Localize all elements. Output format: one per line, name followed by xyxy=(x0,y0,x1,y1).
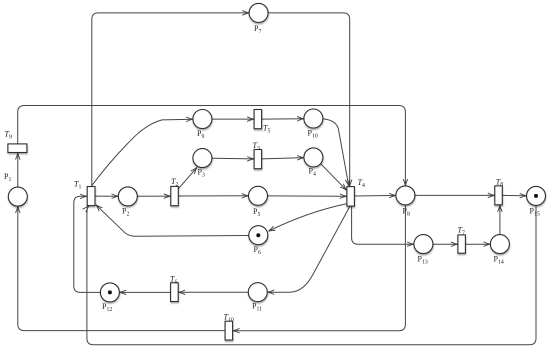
place P12 xyxy=(100,283,119,302)
place P13 xyxy=(414,235,433,254)
svg-text:P12: P12 xyxy=(102,302,112,313)
wire P14 to T8 (up) xyxy=(499,205,501,235)
wire T4 to P11 (long diagonal then flat) xyxy=(267,206,350,292)
svg-text:T4: T4 xyxy=(358,178,365,189)
place P10 xyxy=(304,109,323,128)
token in P15 xyxy=(534,194,538,198)
place P14 xyxy=(490,235,509,254)
wire P12 to T1 (left, up) xyxy=(74,196,101,292)
transition T1 xyxy=(87,187,95,206)
wire P11 to T6 xyxy=(178,291,248,293)
wire T10 to P1 (left along bottom, up) xyxy=(18,206,225,330)
wire T7 to P14 xyxy=(466,243,491,245)
transition T2 xyxy=(171,186,179,205)
wire P1 to T9 xyxy=(17,153,19,187)
wire P2 to T2 xyxy=(137,195,170,197)
place P8 xyxy=(396,186,415,205)
svg-text:P6: P6 xyxy=(254,245,261,256)
wire P4 to T4 (diagonal) xyxy=(321,164,347,191)
svg-text:T5: T5 xyxy=(263,124,270,135)
wire T8 to P15 xyxy=(502,194,526,196)
svg-text:P10: P10 xyxy=(308,129,318,140)
place P7 xyxy=(249,3,268,22)
svg-text:P3: P3 xyxy=(198,168,205,179)
svg-text:P14: P14 xyxy=(494,255,504,266)
wire T4 to P13 (down then right) xyxy=(352,206,414,244)
place P4 xyxy=(304,148,323,167)
transition T4 xyxy=(347,187,355,207)
place P1 xyxy=(8,187,27,206)
transition T7 xyxy=(458,235,466,253)
wire P10 to T4 (curve then steep diagonal) xyxy=(323,119,349,186)
place P5 xyxy=(249,186,268,205)
wire T1 to P2 xyxy=(95,195,119,197)
wire P6 to T1 (left then diagonal up) xyxy=(96,205,249,237)
wire P15 to T1 (down, across bottom, up) xyxy=(87,206,536,345)
transition T8 xyxy=(495,186,503,205)
wire P13 to T7 xyxy=(433,243,458,245)
token in P12 xyxy=(108,290,112,294)
wire T5 to P10 xyxy=(262,118,304,120)
wire T1 to P7 (up left side, across top) xyxy=(92,13,249,187)
place P3 xyxy=(193,149,212,168)
transition T5 xyxy=(254,110,262,129)
svg-text:P1: P1 xyxy=(4,172,11,183)
wire T4 to P6 (diagonal) xyxy=(268,204,346,231)
wire P5 to T4 xyxy=(268,195,347,197)
wire P3 to T3 xyxy=(212,157,254,160)
wire P8 to T10 (down, left) xyxy=(233,205,406,331)
place P6 xyxy=(249,226,268,245)
svg-text:P15: P15 xyxy=(530,207,540,218)
wire T9 to P8 (up, across, down) xyxy=(18,106,406,186)
svg-text:P2: P2 xyxy=(122,207,129,218)
svg-text:T1: T1 xyxy=(74,180,81,191)
wire P7 to T4 (across top, down right) xyxy=(268,13,350,186)
svg-text:P11: P11 xyxy=(252,302,262,313)
svg-text:P9: P9 xyxy=(197,129,204,140)
wire T2 to P5 xyxy=(178,195,248,197)
place P15 xyxy=(527,186,546,205)
svg-text:P4: P4 xyxy=(309,167,316,178)
svg-text:T9: T9 xyxy=(5,130,12,141)
wire T6 to P12 xyxy=(120,291,171,293)
wire T4 to P8 xyxy=(355,195,396,198)
svg-text:P13: P13 xyxy=(418,255,428,266)
wire T1 to P9 (diagonal then flat) xyxy=(91,119,193,187)
place P11 xyxy=(248,283,267,302)
transition T10 xyxy=(225,321,233,340)
place P2 xyxy=(118,187,137,206)
wire T3 to P4 xyxy=(262,158,304,159)
transition T9 xyxy=(8,144,27,153)
place P9 xyxy=(193,110,212,129)
wire P9 to T5 xyxy=(212,118,254,120)
token in P6 xyxy=(256,233,260,237)
svg-text:P8: P8 xyxy=(403,207,410,218)
svg-text:P5: P5 xyxy=(253,207,260,218)
wire T2 to P3 (diagonal) xyxy=(178,167,197,188)
transition T6 xyxy=(171,283,179,302)
svg-text:P7: P7 xyxy=(254,24,261,35)
wire P8 to T8 xyxy=(415,194,495,196)
transition T3 xyxy=(254,150,262,169)
